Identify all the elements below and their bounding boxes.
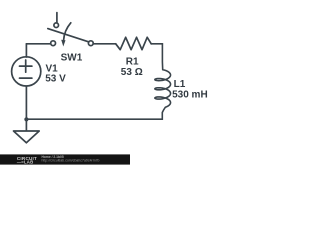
wire resistor to corner <box>151 43 162 45</box>
resistor R1 <box>116 37 152 49</box>
svg-text:53 Ω: 53 Ω <box>121 67 143 78</box>
wire switch to resistor <box>93 43 116 45</box>
wire left vertical bottom <box>25 86 27 119</box>
wire node to ground <box>25 119 27 130</box>
wire left vertical top <box>25 44 27 57</box>
svg-text:R1: R1 <box>126 56 139 67</box>
svg-text:L1: L1 <box>174 79 186 90</box>
svg-text:530 mH: 530 mH <box>172 90 208 101</box>
svg-text:53 V: 53 V <box>45 73 66 84</box>
watermark <box>0 154 130 164</box>
voltage source V1 <box>12 57 41 86</box>
wire top-left horizontal <box>26 43 50 45</box>
junction node <box>24 117 28 121</box>
switch SW1 <box>48 13 93 47</box>
svg-text:http://circuitlab.com/cbahc7a9: http://circuitlab.com/cbahc7a9c4rm7b <box>42 158 100 162</box>
wire bottom horizontal <box>26 118 162 120</box>
svg-text:—≈LAB: —≈LAB <box>17 160 34 165</box>
inductor L1 <box>155 44 171 119</box>
svg-text:SW1: SW1 <box>61 52 83 63</box>
ground <box>14 131 40 143</box>
